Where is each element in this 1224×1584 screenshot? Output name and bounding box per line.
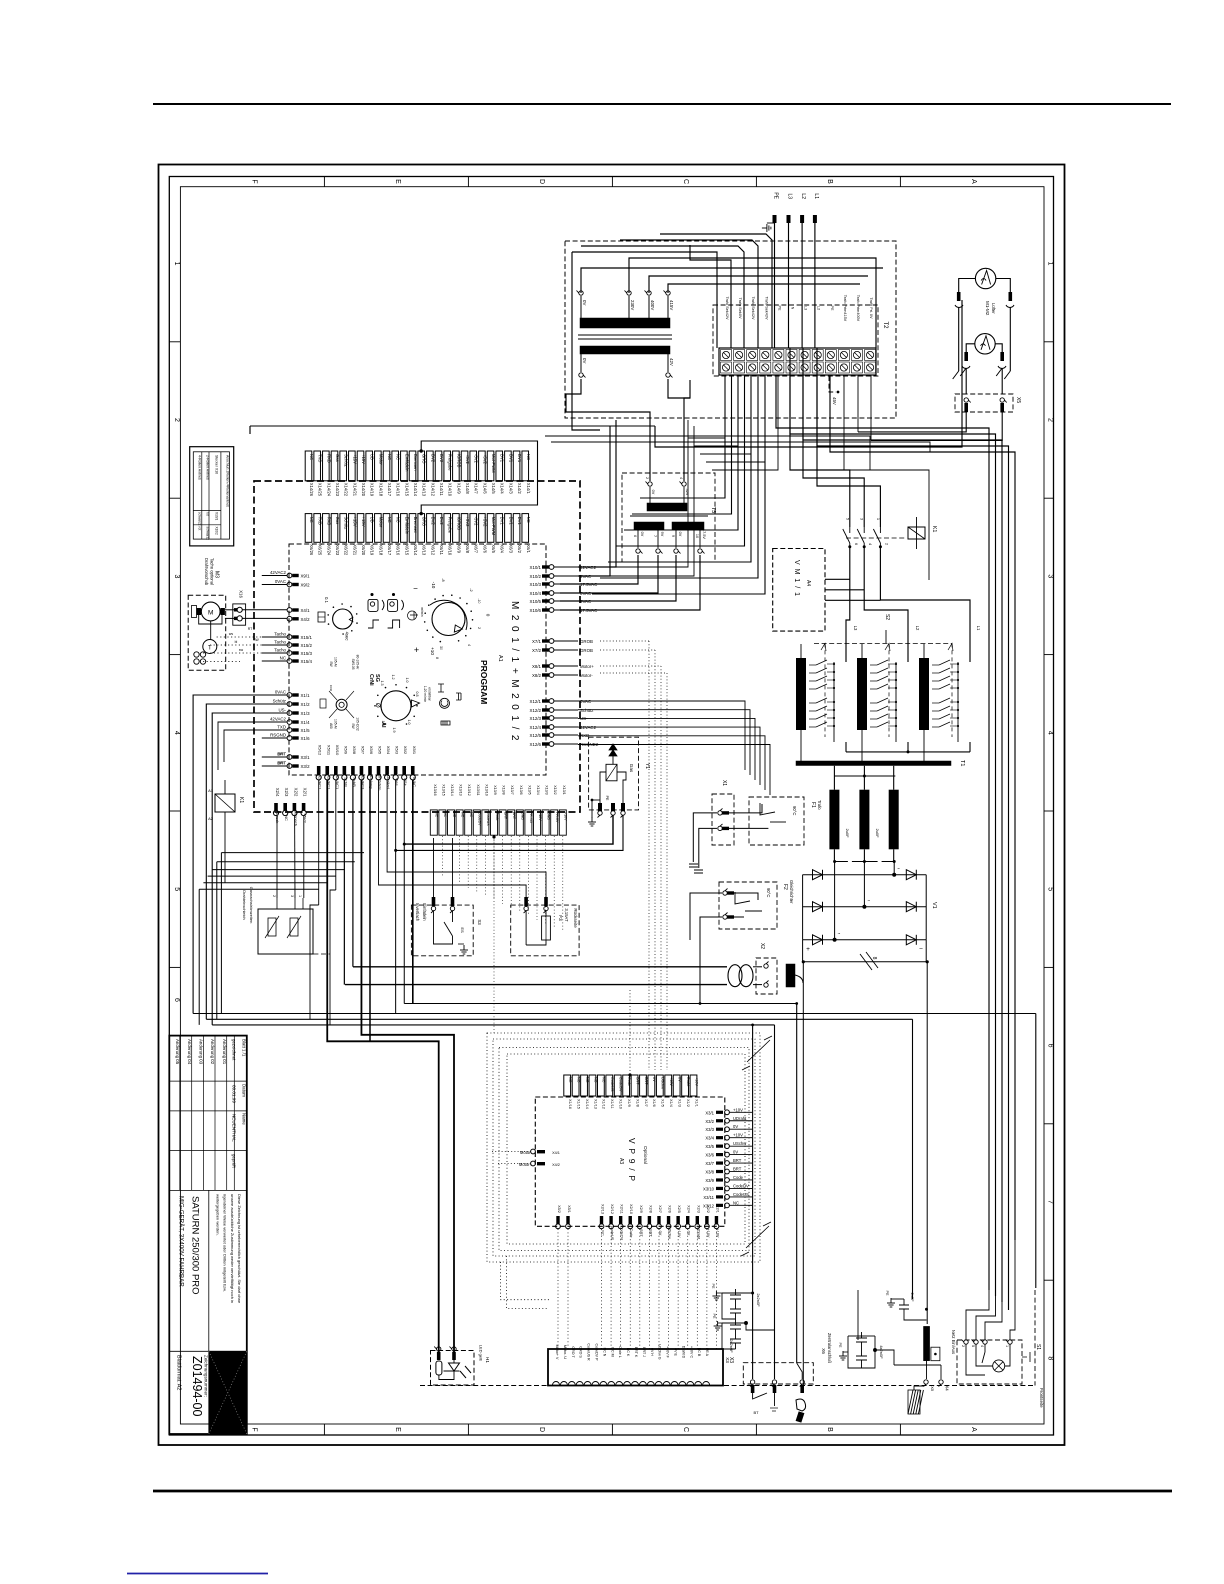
svg-text:UD: UD: [370, 454, 375, 460]
svg-text:Änderung 03: Änderung 03: [199, 1039, 204, 1065]
svg-text:NC: NC: [576, 1077, 580, 1083]
svg-text:Schütz: Schütz: [344, 454, 349, 467]
svg-text:Code L: Code L: [618, 1346, 622, 1358]
main current knob: [408, 578, 491, 659]
svg-text:PE A: PE A: [705, 1348, 709, 1357]
svg-text:NC: NC: [585, 1077, 589, 1083]
connector X1: [712, 794, 734, 845]
svg-text:+10V: +10V: [564, 812, 568, 821]
svg-text:X14/19: X14/19: [370, 483, 375, 497]
svg-text:SW: SW: [351, 723, 355, 729]
page top rule: [153, 103, 1171, 105]
svg-text:TXD: TXD: [318, 454, 323, 462]
svg-text:-10: -10: [431, 582, 436, 589]
svg-text:Tacho optional: Tacho optional: [210, 558, 215, 585]
svg-text:L2: L2: [800, 193, 806, 199]
svg-text:X1/1: X1/1: [694, 1099, 698, 1107]
svg-text:3: 3: [173, 574, 180, 578]
relay K1 coil: [215, 794, 235, 812]
X5 row drop wires: [310, 780, 546, 1042]
svg-text:X2/10: X2/10: [629, 1204, 633, 1214]
wire feed speed knob: [318, 597, 358, 640]
svg-text:Diese Zeichnung ist urheberrec: Diese Zeichnung ist urheberrechtlich ges…: [237, 1194, 242, 1304]
svg-text:0V: 0V: [658, 1231, 662, 1236]
terminal strip lower drop wires: [592, 375, 765, 594]
connector X2: [756, 958, 777, 994]
svg-text:9V: 9V: [660, 532, 664, 537]
svg-text:BRT: BRT: [733, 1167, 742, 1172]
svg-text:230V: 230V: [630, 300, 635, 310]
svg-text:F1: F1: [810, 802, 816, 808]
svg-text:L1: L1: [813, 193, 819, 199]
X13 dotted drops: [442, 836, 562, 1033]
svg-text:NC B: NC B: [697, 1348, 701, 1357]
weld output wires with break marks: [802, 940, 804, 962]
svg-text:X1/2: X1/2: [686, 1099, 690, 1107]
svg-text:X2/2: X2/2: [706, 1205, 710, 1213]
svg-text:DV1: DV1: [517, 517, 522, 526]
T3 primary winding: [647, 503, 687, 511]
svg-text:X2/3: X2/3: [696, 1205, 700, 1213]
svg-text:3: 3: [1047, 574, 1054, 578]
bus drop verticals: [1035, 1014, 1037, 1289]
svg-text:X1/11: X1/11: [610, 1099, 614, 1109]
svg-text:X6/16: X6/16: [396, 544, 401, 556]
svg-text:X2/4: X2/4: [687, 1205, 691, 1213]
svg-text:X12/2: X12/2: [530, 708, 542, 713]
svg-text:E: E: [394, 1427, 401, 1432]
svg-text:80-105-Ar: 80-105-Ar: [356, 655, 360, 671]
svg-text:X5/12: X5/12: [318, 745, 323, 756]
svg-text:X5/4: X5/4: [386, 746, 391, 755]
svg-text:A2: A2: [208, 816, 214, 821]
svg-text:+5V2: +5V2: [482, 517, 487, 528]
switch box Einfädeln: [411, 905, 473, 956]
svg-text:weitergegeben werden.: weitergegeben werden.: [215, 1194, 220, 1236]
svg-text:CrNi: CrNi: [368, 674, 374, 686]
svg-text:X5/5: X5/5: [378, 746, 383, 755]
svg-text:X2/6: X2/6: [668, 1205, 672, 1213]
svg-text:IGROB: IGROB: [456, 454, 461, 468]
svg-text:X13/9: X13/9: [493, 785, 497, 794]
svg-text:RXD: RXD: [326, 517, 331, 526]
svg-text:X3/11: X3/11: [703, 1195, 714, 1200]
svg-text:NC: NC: [396, 517, 401, 523]
svg-text:Code: Code: [627, 1077, 631, 1086]
svg-text:unsere ausdrückliche Zustimmun: unsere ausdrückliche Zustimmung weder ve…: [230, 1194, 235, 1303]
svg-text:CodeDV: CodeDV: [619, 1077, 623, 1092]
svg-text:sw: sw: [239, 648, 244, 652]
svg-text:L1: L1: [976, 626, 981, 631]
svg-text:X6: X6: [820, 1348, 826, 1354]
svg-text:X14/25: X14/25: [318, 483, 323, 497]
svg-text:X1/7: X1/7: [644, 1099, 648, 1107]
svg-text:NC: NC: [526, 517, 531, 523]
svg-text:90°C: 90°C: [792, 806, 797, 815]
svg-text:NC: NC: [593, 1077, 597, 1083]
terminal strip T2: [719, 348, 876, 375]
svg-text:Trafo Pri. 0V: Trafo Pri. 0V: [869, 297, 873, 319]
svg-text:Blattformat: A2: Blattformat: A2: [176, 1355, 182, 1390]
svg-text:X1/3: X1/3: [677, 1099, 681, 1107]
svg-text:X10/2: X10/2: [215, 527, 219, 536]
svg-text:L3: L3: [804, 306, 808, 310]
svg-text:X14/13: X14/13: [422, 483, 427, 497]
terminal strip drop wires: [688, 375, 929, 580]
svg-text:Gasnachströmzeiten: Gasnachströmzeiten: [249, 887, 254, 924]
sheet outer border: [159, 165, 1065, 1446]
svg-text:0V: 0V: [678, 532, 682, 537]
svg-text:X1/15: X1/15: [576, 1099, 580, 1109]
svg-text:X1/5: X1/5: [661, 1099, 665, 1107]
svg-text:Schütz: Schütz: [344, 517, 349, 530]
svg-text:NC M: NC M: [610, 1347, 614, 1356]
svg-text:BRT: BRT: [733, 1158, 742, 1163]
svg-text:2: 2: [477, 627, 481, 629]
svg-text:0V: 0V: [733, 1124, 738, 1129]
svg-text:2-Rollen Antrieb: 2-Rollen Antrieb: [205, 455, 209, 480]
GROB/Motor dotted links: [600, 641, 667, 1074]
transformer T2 dashed enclosure: [565, 241, 896, 418]
svg-text:Schütz: Schütz: [273, 699, 286, 704]
svg-text:X13/4: X13/4: [536, 785, 540, 794]
svg-text:+: +: [806, 946, 810, 953]
svg-text:0V E: 0V E: [674, 1348, 678, 1356]
svg-text:V P 9 / P: V P 9 / P: [627, 1138, 637, 1182]
svg-text:1: 1: [298, 895, 302, 897]
svg-text:X14/17: X14/17: [387, 483, 392, 497]
svg-text:X1/10: X1/10: [619, 1099, 623, 1109]
svg-text:X3/8: X3/8: [705, 1170, 714, 1175]
svg-text:M 2 0 1 / 1 + M 2 0 1 / 2: M 2 0 1 / 1 + M 2 0 1 / 2: [509, 601, 520, 742]
svg-text:Trafo Sek0V: Trafo Sek0V: [738, 298, 742, 319]
svg-text:+15V: +15V: [352, 517, 357, 527]
svg-text:BRT: BRT: [639, 1229, 643, 1237]
svg-text:~: ~: [867, 898, 870, 903]
svg-text:09.01.99: 09.01.99: [231, 1085, 236, 1103]
svg-text:Mot-PWM: Mot-PWM: [491, 454, 496, 473]
svg-text:Zentralanschluß: Zentralanschluß: [827, 1333, 832, 1363]
svg-text:X14/9: X14/9: [456, 483, 461, 495]
svg-text:X4/1: X4/1: [552, 1151, 560, 1155]
caps 4x2n0F: [848, 1332, 894, 1368]
svg-text:X6/7: X6/7: [474, 544, 479, 553]
svg-text:M1-M2: M1-M2: [985, 301, 990, 316]
S1 feed elbows: [966, 1290, 989, 1340]
svg-text:RSGND: RSGND: [270, 733, 286, 738]
svg-text:DV2: DV2: [439, 517, 444, 526]
motor module VM1/1: [773, 549, 825, 632]
svg-text:X14/22: X14/22: [344, 483, 349, 497]
svg-text:X1/8: X1/8: [635, 1099, 639, 1107]
svg-text:BT: BT: [753, 1410, 759, 1415]
svg-text:X4: X4: [945, 1385, 950, 1391]
svg-text:+5V2: +5V2: [482, 454, 487, 465]
svg-text:S1: S1: [1035, 1344, 1041, 1350]
svg-text:NC: NC: [443, 812, 447, 818]
svg-text:X6/11: X6/11: [439, 544, 444, 555]
T3 secondary terminals: [633, 529, 706, 553]
X12 bus to right: [578, 701, 770, 795]
svg-text:US-: US-: [278, 708, 286, 713]
svg-text:Code: Code: [733, 1175, 744, 1180]
svg-text:+5V2: +5V2: [465, 517, 470, 528]
svg-text:SW105: SW105: [351, 659, 355, 670]
T2 primary selection wires: [572, 234, 883, 430]
svg-text:X2/2: X2/2: [293, 788, 298, 797]
sheet middle border: [169, 177, 1053, 1436]
svg-text:PE: PE: [605, 796, 609, 801]
auxiliary transformer T3: [622, 473, 715, 562]
svg-text:NC: NC: [460, 812, 464, 818]
svg-text:X6/2: X6/2: [517, 544, 522, 553]
fan motors M1-M2: [953, 268, 1014, 394]
svg-text:0V: 0V: [582, 300, 587, 305]
footer link line: [127, 1573, 268, 1575]
svg-text:+10V: +10V: [669, 1077, 673, 1086]
svg-text:D: D: [538, 179, 545, 184]
svg-text:CodeDV: CodeDV: [620, 1226, 624, 1241]
svg-text:Drahtvorschub: Drahtvorschub: [204, 558, 209, 586]
svg-text:Bremsen: Bremsen: [413, 454, 418, 471]
svg-text:NC: NC: [526, 454, 531, 460]
svg-text:X6/5: X6/5: [491, 544, 496, 553]
svg-text:Optional: Optional: [642, 1146, 648, 1164]
svg-text:0V: 0V: [640, 532, 644, 537]
svg-text:X14/12: X14/12: [430, 483, 435, 497]
svg-text:Motor+ V: Motor+ V: [555, 1345, 559, 1360]
svg-text:Code: Code: [495, 812, 499, 821]
svg-text:X4/2: X4/2: [301, 617, 311, 622]
svg-text:X2/5: X2/5: [677, 1205, 681, 1213]
svg-text:X7/1: X7/1: [532, 639, 542, 644]
svg-text:X2/1: X2/1: [303, 788, 308, 797]
svg-text:X1/12: X1/12: [602, 1099, 606, 1109]
svg-text:Trafo Sek42V: Trafo Sek42V: [725, 296, 729, 320]
bottom connector row X5: [316, 745, 417, 791]
svg-text:4: 4: [173, 731, 180, 735]
svg-text:F2: F2: [782, 884, 788, 890]
phase junction rail: [835, 861, 848, 863]
svg-text:USchw: USchw: [733, 1141, 747, 1146]
svg-text:NC N: NC N: [602, 1348, 606, 1357]
svg-text:X1/14: X1/14: [585, 1099, 589, 1109]
svg-text:Änderung 02: Änderung 02: [210, 1039, 215, 1065]
svg-text:X13/2: X13/2: [553, 785, 557, 794]
svg-text:1.2: 1.2: [391, 675, 395, 680]
svg-text:Z01494-00: Z01494-00: [190, 1356, 204, 1417]
svg-text:+15V: +15V: [361, 454, 366, 464]
svg-text:X1/5: X1/5: [301, 728, 311, 733]
svg-text:0V: 0V: [582, 358, 587, 363]
svg-text:Datum: Datum: [242, 1084, 247, 1097]
title block black field: [209, 1351, 247, 1434]
svg-text:2: 2: [645, 477, 649, 479]
weld earth lead: [857, 1290, 859, 1340]
svg-text:X1: X1: [721, 780, 727, 786]
svg-text:Frontseite: Frontseite: [1039, 1388, 1044, 1408]
svg-text:X1/16: X1/16: [568, 1099, 572, 1109]
45V tap label: [829, 376, 836, 392]
svg-text:X6/3: X6/3: [508, 544, 513, 553]
svg-text:schwarz2: schwarz2: [197, 512, 201, 526]
svg-text:45V: 45V: [832, 397, 837, 405]
svg-text:42VAC2: 42VAC2: [270, 570, 287, 575]
svg-text:Motor-: Motor-: [580, 673, 593, 678]
svg-text:m/min: m/min: [420, 607, 424, 616]
2n0F cap: [891, 1299, 927, 1320]
svg-text:0V: 0V: [651, 490, 655, 495]
svg-text:X5/10: X5/10: [335, 745, 340, 756]
svg-text:X2/4: X2/4: [275, 788, 280, 797]
svg-text:X6/17: X6/17: [387, 544, 392, 556]
svg-text:BRT: BRT: [278, 760, 286, 765]
svg-text:X2/13: X2/13: [601, 1204, 605, 1214]
svg-text:+10V: +10V: [715, 1229, 719, 1238]
svg-text:0: 0: [486, 614, 491, 617]
svg-text:GRO: GRO: [422, 454, 427, 464]
svg-text:X3/6: X3/6: [705, 1153, 714, 1158]
svg-text:T3: T3: [710, 507, 716, 513]
svg-text:RT: RT: [248, 627, 252, 631]
svg-text:0.8: 0.8: [415, 692, 419, 697]
svg-text:−: −: [919, 946, 923, 953]
svg-text:Motor: Motor: [378, 454, 383, 465]
svg-text:BRT: BRT: [503, 812, 507, 820]
svg-text:X6/10: X6/10: [448, 544, 453, 556]
svg-text:L3: L3: [787, 193, 793, 199]
sheet inner border: [180, 187, 1044, 1424]
svg-text:X14/2: X14/2: [517, 483, 522, 495]
svg-text:-2: -2: [469, 588, 473, 591]
svg-text:BRT: BRT: [644, 1077, 648, 1085]
svg-text:0V H: 0V H: [650, 1348, 654, 1356]
svg-text:X1/1: X1/1: [301, 693, 311, 698]
svg-text:X14/14: X14/14: [413, 483, 418, 497]
svg-text:gezeichnet: gezeichnet: [231, 1039, 236, 1061]
title block outline: [169, 1036, 247, 1434]
svg-text:X16: X16: [239, 590, 244, 598]
svg-text:X14/21: X14/21: [352, 483, 357, 497]
svg-text:X1/13: X1/13: [593, 1099, 597, 1109]
X5 left jog wires: [199, 853, 364, 1025]
svg-text:X6/1: X6/1: [526, 544, 531, 553]
svg-text:A1: A1: [497, 655, 503, 662]
svg-text:Gasnach: Gasnach: [293, 810, 298, 826]
T1 tap bus link: [846, 751, 970, 753]
svg-text:Tacho: Tacho: [274, 640, 286, 645]
svg-text:-5V2: -5V2: [474, 454, 479, 464]
svg-text:X14/5: X14/5: [491, 483, 496, 495]
svg-text:rot: rot: [205, 512, 209, 516]
svg-text:90°C: 90°C: [766, 888, 771, 897]
svg-text:Gas: Gas: [335, 454, 340, 462]
svg-text:NC: NC: [396, 454, 401, 460]
T1 secondary bus bar: [796, 761, 951, 766]
svg-text:Einfädeln: Einfädeln: [422, 903, 427, 921]
screened cable dotted boxes: [487, 1033, 760, 1262]
K1 contact feed wires: [790, 348, 850, 527]
svg-text:SW: SW: [329, 661, 333, 667]
svg-text:X6/13: X6/13: [422, 544, 427, 556]
svg-text:Schütz: Schütz: [580, 708, 593, 713]
svg-text:3,15AT: 3,15AT: [564, 908, 569, 922]
svg-text:NEUENTHAL: NEUENTHAL: [231, 1114, 236, 1142]
X2 row dotted drops to X3 strip: [558, 1229, 716, 1349]
svg-text:9: 9: [671, 535, 675, 537]
transformer T2 core: [578, 334, 672, 336]
svg-text:PE: PE: [777, 305, 781, 311]
svg-text:X3/2: X3/2: [301, 764, 311, 769]
torch symbol: [796, 1399, 806, 1411]
svg-text:X14/7: X14/7: [474, 483, 479, 495]
svg-text:UDraht: UDraht: [696, 1227, 700, 1240]
X14 to X6 link wire: [421, 441, 537, 514]
svg-text:5: 5: [971, 1345, 975, 1347]
svg-text:7: 7: [653, 535, 657, 537]
X4 X5 output hooks: [924, 1380, 929, 1387]
svg-text:X6/19: X6/19: [370, 544, 375, 556]
svg-text:Freigabe: Freigabe: [448, 517, 453, 534]
svg-text:DV1: DV1: [508, 517, 513, 526]
svg-text:Blatt 1 /1: Blatt 1 /1: [242, 1039, 247, 1057]
svg-text:Netz Ein/Aus: Netz Ein/Aus: [951, 1330, 956, 1354]
control assembly dashed enclosure: [254, 481, 580, 812]
svg-text:X1/2: X1/2: [301, 702, 311, 707]
left stub connectors: [262, 570, 313, 769]
svg-text:X6/21: X6/21: [352, 544, 357, 556]
svg-text:USchw: USchw: [661, 1077, 665, 1089]
potentiometer box Drahteinschleich/Gasnachströmzeit: [258, 909, 313, 954]
svg-text:X10/1: X10/1: [530, 565, 542, 570]
svg-text:GND: GND: [546, 812, 550, 820]
bottom connector row X2: [273, 788, 307, 826]
wire feed motor unit M3: [188, 595, 226, 670]
svg-text:1.0: 1.0: [407, 720, 411, 725]
svg-text:SW: SW: [253, 638, 259, 642]
svg-text:X10/1: X10/1: [215, 512, 219, 521]
svg-text:Einfädeln: Einfädeln: [404, 454, 409, 472]
svg-text:Tacho: Tacho: [274, 632, 286, 637]
T3 wiring to board: [596, 412, 650, 481]
svg-text:X8/2: X8/2: [532, 673, 542, 678]
PE earth symbol: [762, 224, 771, 232]
svg-text:X14/16: X14/16: [396, 483, 401, 497]
svg-text:Invertiach: Invertiach: [415, 903, 420, 922]
svg-text:X12/3: X12/3: [530, 716, 542, 721]
svg-text:105-CO2: 105-CO2: [356, 717, 360, 731]
svg-text:X1/6: X1/6: [652, 1099, 656, 1107]
svg-text:+15V: +15V: [352, 454, 357, 464]
svg-text:FR-0V: FR-0V: [555, 812, 559, 823]
svg-text:X2/1: X2/1: [715, 1205, 719, 1213]
svg-text:T1: T1: [959, 760, 965, 766]
svg-text:X5/2: X5/2: [557, 1205, 561, 1213]
svg-text:6: 6: [1047, 1044, 1054, 1048]
trigger switch BT: [753, 1393, 767, 1399]
svg-text:Trafo Prim415V: Trafo Prim415V: [843, 295, 847, 322]
board to T2 riser wires: [578, 420, 694, 576]
svg-text:DV1: DV1: [517, 454, 522, 463]
svg-text:X10/6: X10/6: [530, 608, 542, 613]
page bottom rule: [153, 1490, 1172, 1493]
svg-text:Draht: Draht: [686, 1077, 690, 1087]
svg-text:X13/12: X13/12: [467, 784, 471, 795]
connector X16: [233, 604, 246, 625]
svg-text:0VAC: 0VAC: [580, 699, 591, 704]
svg-text:N: N: [791, 307, 795, 310]
svg-text:X5/8: X5/8: [352, 746, 357, 755]
